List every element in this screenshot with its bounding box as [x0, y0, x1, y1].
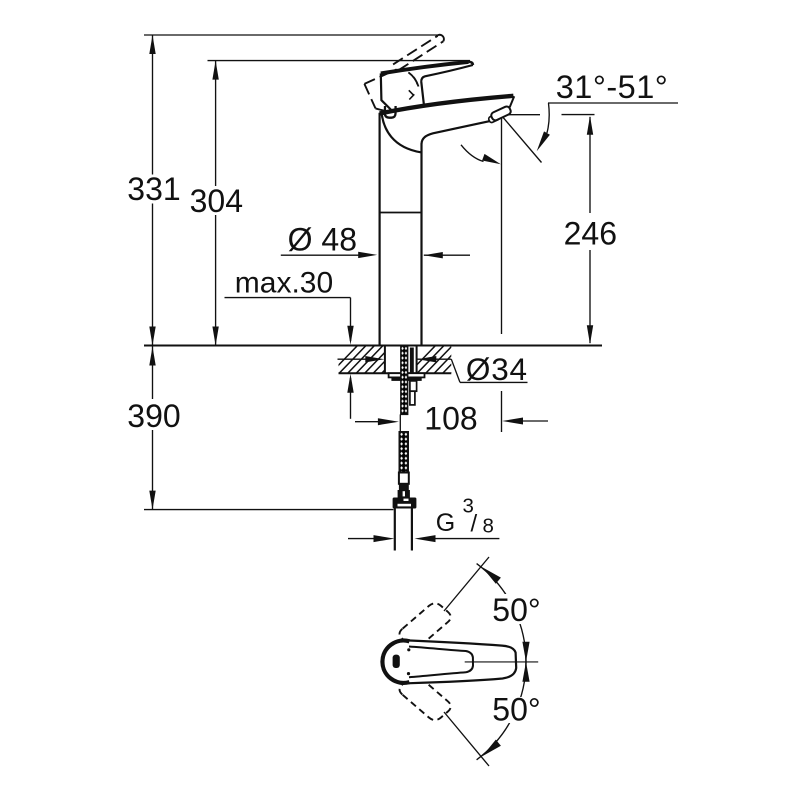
svg-text:304: 304: [190, 183, 243, 219]
svg-text:31°-51°: 31°-51°: [556, 69, 669, 105]
svg-text:390: 390: [127, 398, 180, 434]
svg-text:Ø 48: Ø 48: [288, 221, 357, 257]
svg-text:/: /: [471, 511, 478, 538]
svg-text:108: 108: [424, 401, 477, 437]
svg-text:max.30: max.30: [235, 267, 333, 300]
svg-text:8: 8: [483, 515, 494, 538]
svg-text:50°: 50°: [492, 691, 540, 727]
svg-text:331: 331: [127, 171, 180, 207]
svg-text:Ø34: Ø34: [466, 351, 528, 387]
svg-text:50°: 50°: [492, 592, 540, 628]
svg-text:G: G: [436, 509, 455, 537]
svg-text:246: 246: [564, 215, 617, 251]
